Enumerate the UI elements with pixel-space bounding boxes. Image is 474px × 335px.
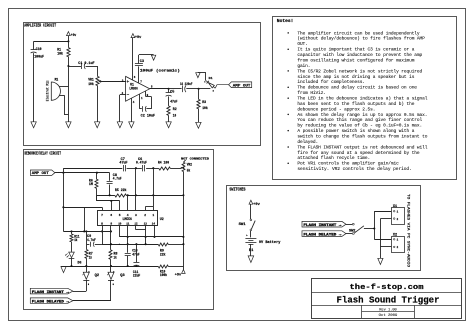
wire pin4 vertical [127, 195, 129, 211]
svg-text:100k: 100k [160, 273, 167, 277]
battery B1 [245, 235, 280, 253]
svg-text:3: 3 [135, 213, 137, 217]
junction vr2-vert/R5 line [182, 194, 184, 196]
notes text [287, 30, 427, 172]
wire op-amp pin1 to C2 [140, 94, 143, 109]
svg-text:Electret Mic: Electret Mic [46, 80, 50, 101]
junction pin9/line A [110, 230, 112, 232]
notes title [277, 19, 294, 24]
wire D1 cathode to ground stub [198, 72, 206, 80]
svg-text:C3: C3 [140, 59, 144, 63]
wire line B [119, 236, 183, 238]
svg-text:7: 7 [140, 81, 142, 84]
notes box [273, 17, 457, 180]
svg-text:11: 11 [126, 222, 129, 226]
svg-text:R2: R2 [173, 108, 177, 112]
ground (C10) [31, 122, 36, 128]
svg-text:The FLASH INSTANT output is no: The FLASH INSTANT output is not debounce… [297, 144, 427, 150]
svg-text:6: 6 [110, 213, 112, 217]
svg-text:FLASH DELAYED →: FLASH DELAYED → [303, 234, 342, 238]
svg-text:has been sent to the flash out: has been sent to the flash outputs and b… [297, 101, 414, 107]
junction R5/pin3 [135, 194, 137, 196]
wire pin11 vertical / C10 chain [127, 225, 129, 252]
svg-text:D1: D1 [209, 77, 213, 80]
svg-text:FLASH INSTANT →: FLASH INSTANT → [303, 224, 342, 228]
svg-text:X1: X1 [393, 204, 397, 208]
svg-text:4.7uF: 4.7uF [113, 176, 122, 180]
junction +9v/R1 [67, 40, 69, 42]
to flashes note (vertical) [407, 194, 411, 267]
resistor R8 [109, 250, 117, 266]
svg-text:8: 8 [101, 222, 103, 226]
junction lineA/C9 [85, 230, 87, 232]
junction R5/C8 [109, 194, 111, 196]
svg-text:47uF: 47uF [132, 252, 139, 256]
FLASH INSTANT tag (debounce) [30, 288, 73, 295]
svg-text:SW2: SW2 [349, 228, 355, 232]
wire battery bottom [250, 244, 252, 256]
svg-text:5k: 5k [187, 169, 190, 173]
junction lineA/reset [83, 230, 85, 232]
switch SW2 [346, 223, 374, 234]
svg-text:10k: 10k [57, 52, 63, 57]
title website text [350, 284, 424, 292]
wire pin9 vertical [110, 225, 112, 249]
wire op-amp pin4 to ground [132, 98, 135, 122]
capacitor C7 [119, 157, 127, 172]
resistor R2 [167, 106, 177, 122]
svg-text:AMPLIFIER CIRCUIT: AMPLIFIER CIRCUIT [24, 24, 56, 29]
junction lineC/pin10x [119, 244, 120, 245]
FLASH DELAYED tag (debounce) [30, 298, 73, 305]
svg-text:switch to change the flash out: switch to change the flash outputs from … [297, 134, 427, 140]
svg-text:7: 7 [101, 213, 103, 217]
wire C9 left vertical [86, 231, 88, 244]
wire op-amp pin2 to ground [120, 92, 126, 122]
svg-text:13: 13 [144, 222, 147, 226]
wire VR2 right vertical [183, 172, 185, 266]
svg-text:B1: B1 [249, 249, 253, 253]
resistor R1 [57, 41, 70, 56]
capacitor C3 [135, 55, 180, 74]
junction vr2-vert/line B [182, 236, 184, 238]
title block frame [311, 279, 461, 319]
svg-text:10: 10 [173, 115, 176, 119]
svg-text:1k: 1k [74, 238, 77, 242]
svg-text:sensitivity. VR2 controls the: sensitivity. VR2 controls the delay peri… [297, 166, 411, 172]
transistor Q3 [107, 266, 125, 301]
svg-text:C5: C5 [170, 90, 174, 94]
svg-text:Rev 1.00: Rev 1.00 [379, 308, 397, 312]
svg-text:+9v: +9v [253, 203, 260, 207]
timer IC U2 LM556 [98, 211, 164, 226]
svg-text:C10: C10 [36, 48, 42, 52]
svg-text:capacitor with low inductance: capacitor with low inductance to prevent… [297, 52, 422, 58]
svg-text:14: 14 [152, 222, 155, 226]
junction R5/pin4 [127, 194, 129, 196]
junction lineC/pin9 [110, 243, 112, 245]
svg-text:The debounce and delay circuit: The debounce and delay circuit is based … [297, 85, 417, 91]
junction amp-out/left vertical [62, 172, 64, 174]
title name text [337, 295, 440, 305]
svg-text:OUT.: OUT. [297, 41, 307, 47]
junction lineC/C11 [135, 243, 137, 245]
svg-text:The C5/R2 Zobel network is not: The C5/R2 Zobel network is not strictly … [297, 68, 422, 74]
wire line C [102, 244, 184, 246]
wire top rail [63, 168, 181, 170]
junction vr2-vert/line C [182, 243, 184, 245]
wire connector returns [380, 219, 391, 259]
junction R1/C1 [67, 65, 69, 67]
svg-text:It is quite important that C3: It is quite important that C3 is ceramic… [297, 47, 414, 53]
junction rail/pin3 [135, 167, 137, 169]
capacitor C10 [125, 249, 140, 266]
op-amp U1 LM386 [126, 76, 150, 101]
svg-text:included for completeness.: included for completeness. [297, 79, 365, 85]
svg-text:Pot VR1 controls the amplifier: Pot VR1 controls the amplifier gain/mic [297, 161, 399, 167]
svg-text:The amplifier circuit can be u: The amplifier circuit can be used indepe… [297, 30, 419, 36]
svg-text:9: 9 [110, 222, 112, 226]
wire R5 line [97, 195, 183, 197]
svg-text:4: 4 [127, 213, 129, 217]
svg-text:gain.: gain. [297, 63, 310, 69]
svg-text:You can reduce this range and: You can reduce this range and give finer… [297, 117, 422, 123]
transistor Q2 [82, 266, 99, 291]
wire left long vertical [63, 168, 65, 231]
svg-text:VR2: VR2 [187, 163, 192, 167]
wire pin7 to C3 [139, 66, 143, 83]
wire pin8 vertical [102, 225, 104, 244]
svg-text:12: 12 [134, 222, 137, 226]
wire pin7 line [63, 207, 102, 211]
+9v power symbol (op-amp pin6) [131, 34, 142, 40]
ground (VR1) [95, 122, 100, 128]
capacitor C8 [107, 173, 122, 196]
resistor R10 [158, 265, 168, 277]
svg-text:A possible power switch is sho: A possible power switch is shown along w… [297, 128, 414, 134]
switches title [229, 188, 245, 193]
resistor R3 [197, 89, 208, 123]
svg-text:+9v: +9v [71, 34, 76, 38]
svg-text:(without delay/debounce) to fi: (without delay/debounce) to fire flashes… [297, 36, 425, 42]
switch SW1 [239, 219, 256, 231]
ground (connectors) [378, 258, 383, 264]
capacitor C2 [141, 106, 155, 119]
junction C4/R3 [198, 88, 200, 90]
junction R5/pin1 [152, 194, 154, 196]
svg-text:1k: 1k [89, 256, 92, 260]
connector X2 [392, 232, 405, 252]
svg-text:from oscillating whist configu: from oscillating whist configured for ma… [297, 57, 414, 63]
wire battery top [250, 204, 252, 219]
svg-text:As shown the delay range is up: As shown the delay range is up to approx… [297, 112, 427, 118]
junction bottom/C11 [135, 265, 137, 267]
svg-text:10k: 10k [88, 82, 94, 87]
wire pin5 line [97, 195, 120, 211]
svg-text:The LED in the debounce indica: The LED in the debounce indicates a) tha… [297, 95, 427, 101]
wire pin6 stub [111, 201, 113, 211]
amplifier circuit box [24, 23, 261, 146]
svg-text:9V Battery: 9V Battery [259, 240, 281, 245]
capacitor C5 [166, 89, 178, 106]
capacitor C11 [133, 244, 140, 278]
connector X1 [392, 204, 405, 224]
svg-text:47uF: 47uF [170, 99, 177, 103]
debounce/delay circuit box [24, 150, 214, 310]
wire flash instant [73, 291, 86, 293]
wire mic bottom terminal [59, 95, 68, 115]
FLASH DELAYED tag (switches) [302, 231, 346, 238]
junction bottom/Q3 [110, 265, 112, 267]
wire R1 to mic/ground [68, 57, 70, 122]
ground (C3) [151, 55, 155, 60]
wire output to D1 [199, 88, 211, 90]
junction bottom/C10 [127, 265, 129, 267]
switches box [227, 186, 421, 271]
svg-text:C4 220uF: C4 220uF [180, 83, 192, 87]
amplifier circuit title [24, 24, 56, 29]
svg-text:SW1: SW1 [239, 223, 246, 227]
title date text [379, 314, 398, 318]
potentiometer VR2 [181, 160, 192, 173]
ground (R3) [196, 122, 201, 128]
junction rail/pin1 [152, 167, 154, 169]
svg-text:100uF (ceramic): 100uF (ceramic) [140, 68, 180, 73]
resistor R9 [158, 243, 168, 256]
svg-text:100uF: 100uF [34, 56, 44, 60]
svg-text:22k: 22k [160, 252, 166, 256]
+9v power symbol (battery) [249, 200, 261, 207]
junction pin11/line C [127, 243, 129, 245]
resistor R7 [85, 244, 93, 266]
resistor R4 [158, 161, 171, 171]
wire AMP OUT to C8 [55, 172, 110, 174]
junction pin13/line B [145, 236, 147, 238]
debounce/delay title [25, 151, 62, 156]
FLASH INSTANT tag (switches) [302, 221, 346, 228]
svg-text:AMP OUT: AMP OUT [233, 84, 251, 88]
svg-text:delayed.: delayed. [297, 139, 318, 145]
svg-text:10k: 10k [202, 106, 208, 111]
wire SW2 to connectors [373, 211, 391, 239]
diode D1 [204, 77, 215, 92]
svg-text:10: 10 [118, 222, 121, 226]
capacitor C10 [31, 41, 45, 121]
svg-text:Notes!: Notes! [277, 19, 294, 24]
AMP OUT tag (debounce input) [30, 170, 55, 176]
svg-text:4.7uF: 4.7uF [87, 238, 96, 242]
svg-text:R5 22k: R5 22k [115, 188, 127, 192]
capacitor C4 [169, 83, 199, 92]
LED D6 [65, 252, 81, 266]
junction pin14/line B [153, 236, 155, 238]
junction pin11/line B [127, 236, 129, 238]
svg-text:since the amp is not driving a: since the amp is not driving a speaker b… [297, 74, 414, 80]
svg-text:attached flash recycle time.: attached flash recycle time. [297, 155, 370, 161]
resistor R11 [70, 231, 80, 252]
svg-text:DEBOUNCE/DELAY CIRCUIT: DEBOUNCE/DELAY CIRCUIT [25, 151, 62, 156]
svg-text:Q2: Q2 [95, 273, 99, 277]
svg-text:C2 10uF: C2 10uF [141, 115, 155, 119]
wire pin3 vertical [135, 168, 137, 211]
svg-text:SWITCHES: SWITCHES [229, 188, 245, 193]
svg-text:R4 100: R4 100 [158, 161, 169, 165]
svg-text:1k: 1k [114, 256, 117, 260]
junction pin5-line/pin6 [110, 200, 112, 202]
svg-text:X2: X2 [393, 232, 397, 236]
AMP OUT tag (amplifier) [229, 82, 252, 89]
wire mic top terminal [59, 86, 68, 88]
junction lineC/pin13 [145, 243, 147, 245]
svg-text:22uF: 22uF [133, 274, 140, 278]
ground (mic) [66, 122, 71, 128]
svg-text:1M: 1M [89, 182, 93, 186]
wire pin12 jog [136, 225, 146, 229]
svg-text:the-f-stop.com: the-f-stop.com [350, 284, 424, 292]
svg-text:LM386: LM386 [129, 87, 137, 91]
capacitor C9 [86, 234, 101, 247]
svg-text:47uF: 47uF [119, 161, 127, 165]
svg-text:M1: M1 [55, 77, 59, 81]
wire C3 to ground stub [139, 54, 154, 56]
resistor R5 [115, 188, 127, 197]
svg-text:debounce period - approx 2.5s.: debounce period - approx 2.5s. [297, 106, 375, 112]
svg-text:+9v: +9v [175, 273, 182, 277]
capacitor C6 [136, 157, 147, 172]
svg-text:+9v: +9v [135, 36, 142, 40]
ground (pin2) [117, 122, 122, 128]
wire SW1 to battery [250, 231, 252, 238]
wire op-amp pin8 to C2 [146, 91, 152, 109]
ground (pin4) [129, 122, 134, 128]
svg-text:1: 1 [152, 213, 154, 217]
junction left vertical / pin7 line [62, 206, 64, 208]
capacitor C1 [68, 62, 97, 69]
resistor R6 [89, 173, 98, 201]
svg-text:from HiViz.: from HiViz. [297, 90, 326, 96]
electret mic M1 [46, 77, 61, 101]
wire bottom line [61, 266, 183, 268]
wire line A [63, 231, 111, 233]
wire pin6 to +9v [133, 38, 136, 81]
ground (R2) [166, 122, 171, 128]
svg-text:5: 5 [119, 213, 121, 217]
+9v power symbol (left) [67, 32, 77, 42]
svg-text:Q3: Q3 [120, 273, 124, 277]
ground (battery) [248, 256, 254, 263]
svg-text:LM556: LM556 [123, 218, 132, 222]
pin 3 label [122, 79, 124, 82]
svg-text:U2: U2 [160, 218, 164, 222]
svg-text:Flash Sound Trigger: Flash Sound Trigger [337, 295, 440, 305]
svg-text:C1 0.1uF: C1 0.1uF [78, 62, 94, 66]
junction amp-out/R6 [96, 172, 98, 174]
wire VR1 wiper to op-amp pin3 [100, 81, 126, 83]
junction lineA/R11 [70, 230, 72, 232]
svg-text:4: 4 [133, 101, 135, 104]
svg-text:AMP OUT: AMP OUT [32, 172, 50, 176]
not connected label [181, 156, 209, 160]
svg-text:by reducing the value of Cb -: by reducing the value of Cb - eg 0.1uF=0… [297, 123, 422, 129]
svg-text:D6: D6 [78, 260, 82, 264]
svg-text:fire for any sound at a speed: fire for any sound at a speed determined… [297, 150, 419, 156]
junction pin8/line A [101, 230, 103, 232]
ground (debounce) [61, 267, 66, 273]
svg-text:FLASH INSTANT →: FLASH INSTANT → [32, 291, 70, 295]
svg-text:0.47uF: 0.47uF [136, 161, 147, 165]
wire pin10 vertical [119, 225, 121, 237]
+9v power symbol (debounce) [175, 266, 185, 277]
wire pin13 vertical [145, 225, 147, 244]
wire pin14 vertical [154, 225, 156, 237]
svg-text:2: 2 [144, 213, 146, 217]
wire op-amp output pin5 [150, 86, 169, 89]
svg-text:Oct 2009: Oct 2009 [379, 314, 398, 318]
wire +9v rail to C10 [34, 41, 69, 43]
wire pin1/pin2 vertical [145, 168, 153, 211]
ground (D1 stub) [196, 73, 200, 78]
junction output/C5 [168, 88, 170, 90]
wire reset vertical [84, 207, 86, 231]
svg-text:FLASH DELAYED →: FLASH DELAYED → [32, 301, 70, 305]
potentiometer VR1 [88, 66, 101, 122]
wire D1 to AMP OUT [215, 85, 228, 89]
wire flash delayed [73, 300, 111, 302]
junction bottom/D6 [70, 265, 72, 267]
junction bottom/Q2 [85, 265, 87, 267]
svg-text:R3: R3 [202, 101, 206, 105]
svg-text:TO FLASHES VIA PC SYNC-AUDIO: TO FLASHES VIA PC SYNC-AUDIO [407, 194, 411, 267]
title rev text [379, 308, 397, 312]
